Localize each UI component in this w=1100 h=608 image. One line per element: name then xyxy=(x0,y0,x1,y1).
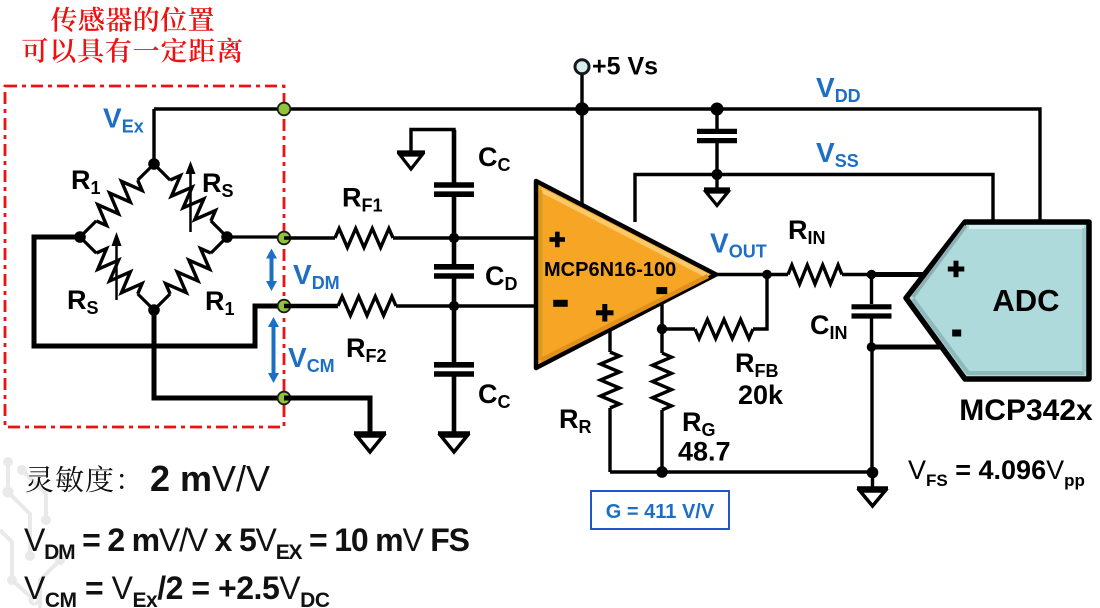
capacitor CD xyxy=(434,238,474,306)
svg-text:VFS = 4.096Vpp: VFS = 4.096Vpp xyxy=(908,455,1085,490)
arrow VCM xyxy=(268,317,279,383)
svg-text:CC: CC xyxy=(478,379,511,412)
wire: VOUT xyxy=(716,273,788,276)
svg-text:MCP342x: MCP342x xyxy=(959,394,1093,427)
svg-text:RF2: RF2 xyxy=(346,333,387,366)
svg-text:RG: RG xyxy=(682,407,716,440)
wire: RF2 left segment xyxy=(284,304,338,309)
wire: ADC - input xyxy=(872,345,943,350)
capacitor CC top xyxy=(434,130,474,238)
svg-text:VDD: VDD xyxy=(816,72,861,106)
wire: RG junction to body xyxy=(660,329,663,353)
capacitor bypass xyxy=(697,109,737,175)
wire: CC top to ground hook xyxy=(411,130,454,153)
svg-text:20k: 20k xyxy=(738,380,784,410)
ADC - input sign xyxy=(952,330,961,337)
wire: VEx riser xyxy=(152,109,155,164)
wire: RG pin xyxy=(660,303,663,329)
wire: return tap to ground xyxy=(284,398,370,432)
svg-text:VCM: VCM xyxy=(288,342,335,376)
node: excitation return tap (green) xyxy=(278,392,291,405)
resistor RFB xyxy=(695,320,753,339)
wire: +5V / VDD rail xyxy=(154,109,1040,222)
arrow VDM xyxy=(266,249,277,292)
svg-text:RF1: RF1 xyxy=(342,183,383,216)
ground: bypass xyxy=(704,175,730,206)
wire: bridge left node loop to -IN tap xyxy=(34,237,284,346)
svg-text:CIN: CIN xyxy=(810,310,848,343)
junction: VOUT / RFB xyxy=(762,270,772,280)
svg-text:VCM = VEx/2 = +2.5VDC: VCM = VEx/2 = +2.5VDC xyxy=(24,570,330,608)
ADC MCP342x body xyxy=(906,222,1089,379)
junction: VDD rail at bypass cap xyxy=(711,103,724,116)
wire: gain network bus xyxy=(610,470,873,473)
resistor RR xyxy=(601,352,620,408)
svg-text:R1: R1 xyxy=(205,286,235,319)
junction: bridge left node xyxy=(74,231,86,243)
junction: +5V rail at supply drop xyxy=(575,102,589,116)
wire: RR to bus xyxy=(608,408,611,472)
junction: RF2 / CD node xyxy=(449,301,459,311)
wire: RG to bus xyxy=(660,410,663,472)
note: sensor location text line 2 xyxy=(22,38,242,63)
junction: RG / RFB xyxy=(657,324,667,334)
op-amp - input sign xyxy=(553,300,568,307)
svg-text:RS: RS xyxy=(67,285,99,318)
svg-text:ADC: ADC xyxy=(992,283,1059,318)
svg-text:CD: CD xyxy=(485,261,518,294)
svg-text:48.7: 48.7 xyxy=(678,437,731,467)
svg-text:RIN: RIN xyxy=(788,215,826,248)
junction: VSS / bypass / ground xyxy=(712,169,723,180)
svg-text:VDM: VDM xyxy=(293,259,340,293)
wire: bridge bottom to excitation return xyxy=(154,310,284,398)
svg-text:CC: CC xyxy=(478,142,511,175)
node: bridge + output tap (green) xyxy=(278,232,291,245)
resistor RIN xyxy=(788,265,842,284)
wire: ADC + input xyxy=(872,272,927,277)
junction: CIN leg at bus xyxy=(867,467,879,479)
op-amp internal + sign xyxy=(596,304,614,322)
wire: RF1 right segment xyxy=(393,236,538,239)
resistor RG xyxy=(653,353,672,410)
note: sensor location text line 1 xyxy=(51,7,214,32)
op-amp internal - sign xyxy=(656,287,667,294)
resistor RF2 xyxy=(338,297,396,316)
junction: bridge bottom node xyxy=(148,304,160,316)
svg-text:RR: RR xyxy=(559,404,592,437)
svg-text:RS: RS xyxy=(202,168,234,201)
svg-text:VDM = 2 mV/V x 5VEX = 10 mV FS: VDM = 2 mV/V x 5VEX = 10 mV FS xyxy=(24,522,470,564)
sensor boundary dashed box xyxy=(5,86,284,427)
ADC + input sign xyxy=(948,261,965,278)
svg-text:VEx: VEx xyxy=(103,103,144,137)
node: VEx tap (green) xyxy=(278,103,291,116)
junction: RIN / CIN xyxy=(867,270,877,280)
resistor RF1 xyxy=(335,229,393,248)
junction: bridge right node xyxy=(221,231,233,243)
resistor R1 (bridge top-left) xyxy=(80,164,154,237)
ground: CC top xyxy=(397,152,425,169)
svg-text:VSS: VSS xyxy=(816,137,859,171)
svg-text:VOUT: VOUT xyxy=(710,228,767,262)
junction: RG at bus xyxy=(656,466,668,478)
svg-text:RFB: RFB xyxy=(735,348,779,381)
wire: RFB branch down xyxy=(753,275,767,330)
wire: supply drop into op-amp xyxy=(580,109,583,205)
op-amp U1 MCP6N16-100 body xyxy=(536,181,716,368)
resistor RS (bridge top-right, variable) xyxy=(154,164,227,237)
svg-text:2 mV/V: 2 mV/V xyxy=(150,458,270,499)
capacitor CC bottom xyxy=(434,306,474,432)
capacitor CIN xyxy=(852,275,892,348)
wire: RF2 right segment xyxy=(396,304,538,307)
node: bridge - output tap (green) xyxy=(278,300,291,313)
wire: VSS bus xyxy=(635,175,993,223)
variable arrow RS bottom-left xyxy=(112,232,122,300)
ground: bridge return xyxy=(354,433,386,452)
terminal +5 Vs xyxy=(575,60,589,109)
wire: RIN to CIN node xyxy=(842,273,872,276)
resistor RS (bridge bottom-left, variable) xyxy=(80,237,154,310)
op-amp + input sign xyxy=(550,232,566,248)
wire: RR pin xyxy=(608,330,611,352)
wire: RF1 left segment xyxy=(284,236,335,239)
wire: CIN node to bus xyxy=(870,347,873,472)
ground: gain bus xyxy=(857,472,888,506)
junction: CIN bottom xyxy=(867,342,877,352)
variable arrow RS top-right xyxy=(186,161,196,232)
svg-text:G = 411 V/V: G = 411 V/V xyxy=(606,501,715,523)
wire: RFB to RG pin xyxy=(662,327,695,330)
junction: RF1 / CD node xyxy=(449,233,459,243)
ground: CC bottom xyxy=(438,433,470,452)
junction: bridge top node xyxy=(148,158,160,170)
svg-text:MCP6N16-100: MCP6N16-100 xyxy=(544,259,676,281)
wire: bridge right node to +IN tap xyxy=(227,235,284,238)
resistor R1 (bridge bottom-right) xyxy=(154,237,227,310)
svg-text:+5 Vs: +5 Vs xyxy=(592,53,658,81)
gain box G = 411 V/V xyxy=(591,491,729,529)
svg-text:R1: R1 xyxy=(71,165,101,198)
note: sensitivity xyxy=(26,465,123,492)
